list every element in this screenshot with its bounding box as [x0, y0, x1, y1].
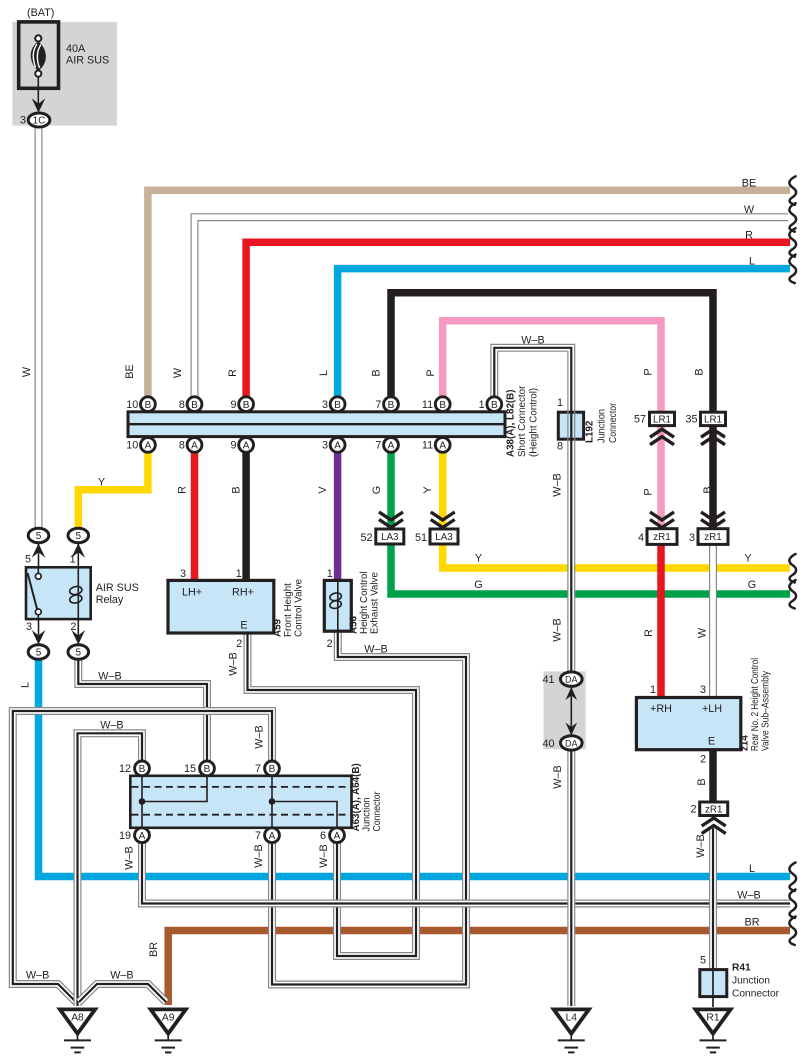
- svg-text:W–B: W–B: [124, 846, 136, 869]
- svg-text:4: 4: [638, 532, 644, 544]
- svg-text:B: B: [243, 400, 250, 411]
- svg-text:Exhaust Valve: Exhaust Valve: [370, 572, 381, 634]
- svg-text:Y: Y: [744, 553, 751, 565]
- svg-text:+LH: +LH: [702, 703, 722, 715]
- svg-text:A8: A8: [71, 1013, 84, 1024]
- svg-text:40A: 40A: [66, 43, 86, 55]
- svg-text:9: 9: [230, 399, 236, 411]
- svg-text:2: 2: [690, 804, 696, 816]
- svg-text:8: 8: [179, 399, 185, 411]
- svg-text:Control Valve: Control Valve: [294, 578, 305, 637]
- svg-text:7: 7: [255, 830, 261, 842]
- svg-text:R: R: [643, 629, 655, 637]
- svg-text:2: 2: [70, 621, 76, 633]
- svg-text:A: A: [388, 441, 395, 452]
- svg-text:zR1: zR1: [653, 532, 670, 543]
- svg-text:B: B: [388, 400, 395, 411]
- svg-text:AIR SUS: AIR SUS: [66, 55, 109, 67]
- svg-text:7: 7: [375, 440, 381, 452]
- svg-text:BE: BE: [742, 178, 756, 190]
- svg-text:R41: R41: [732, 963, 751, 974]
- svg-text:A: A: [334, 441, 341, 452]
- svg-text:5: 5: [36, 531, 42, 542]
- svg-text:A: A: [243, 441, 250, 452]
- svg-text:W–B: W–B: [98, 671, 121, 683]
- svg-text:B: B: [371, 369, 383, 376]
- svg-text:1: 1: [70, 554, 76, 566]
- svg-text:Junction: Junction: [732, 976, 770, 987]
- svg-text:11: 11: [422, 440, 433, 452]
- svg-text:W: W: [697, 627, 709, 638]
- svg-text:W–B: W–B: [552, 765, 564, 788]
- svg-text:1: 1: [650, 684, 656, 696]
- svg-text:7: 7: [255, 763, 261, 775]
- svg-text:z14: z14: [740, 735, 751, 751]
- svg-text:8: 8: [179, 440, 185, 452]
- svg-text:L: L: [749, 863, 755, 875]
- svg-text:Rear No. 2 Height Control: Rear No. 2 Height Control: [750, 658, 761, 751]
- svg-text:W–B: W–B: [552, 473, 564, 496]
- svg-text:B: B: [694, 368, 706, 375]
- svg-text:R1: R1: [706, 1013, 719, 1024]
- svg-text:E: E: [240, 620, 247, 632]
- svg-text:51: 51: [415, 532, 427, 544]
- svg-text:10: 10: [126, 440, 138, 452]
- svg-text:Relay: Relay: [96, 594, 124, 606]
- svg-text:A9: A9: [162, 1013, 175, 1024]
- svg-text:L192: L192: [585, 420, 596, 443]
- svg-text:W: W: [172, 367, 184, 378]
- svg-text:Y: Y: [98, 477, 105, 489]
- svg-text:B: B: [702, 486, 714, 493]
- svg-text:W–B: W–B: [364, 644, 387, 656]
- svg-text:RH+: RH+: [232, 587, 254, 599]
- svg-text:2: 2: [327, 638, 333, 650]
- svg-text:B: B: [230, 486, 242, 493]
- svg-text:B: B: [491, 400, 498, 411]
- svg-text:W–B: W–B: [253, 844, 265, 867]
- svg-text:L: L: [20, 682, 32, 688]
- svg-text:1: 1: [236, 568, 242, 580]
- svg-text:L: L: [318, 370, 330, 376]
- svg-text:W: W: [744, 204, 755, 216]
- svg-text:Connector: Connector: [372, 791, 383, 832]
- svg-text:W–B: W–B: [254, 725, 266, 748]
- svg-text:W–B: W–B: [110, 970, 133, 982]
- svg-text:BE: BE: [124, 364, 136, 378]
- svg-text:BR: BR: [148, 942, 160, 957]
- svg-text:57: 57: [634, 414, 646, 426]
- svg-text:AIR SUS: AIR SUS: [96, 582, 139, 594]
- svg-text:P: P: [425, 369, 437, 376]
- svg-text:40: 40: [542, 738, 554, 750]
- svg-text:Connector: Connector: [732, 989, 780, 1000]
- svg-text:9: 9: [230, 440, 236, 452]
- svg-text:52: 52: [360, 532, 372, 544]
- svg-text:2: 2: [236, 638, 242, 650]
- svg-text:W–B: W–B: [100, 720, 123, 732]
- svg-text:W–B: W–B: [318, 844, 330, 867]
- svg-text:41: 41: [542, 674, 554, 686]
- svg-text:A59: A59: [273, 618, 284, 637]
- svg-text:+RH: +RH: [650, 703, 672, 715]
- svg-text:3: 3: [322, 399, 328, 411]
- svg-text:3: 3: [700, 684, 706, 696]
- svg-text:A63(A), A64(B): A63(A), A64(B): [351, 763, 362, 831]
- svg-text:3: 3: [689, 532, 695, 544]
- svg-text:G: G: [474, 579, 482, 591]
- svg-text:Short Connector: Short Connector: [517, 385, 528, 457]
- svg-text:5: 5: [25, 554, 31, 566]
- svg-text:LH+: LH+: [182, 587, 202, 599]
- svg-text:Valve Sub–Assembly: Valve Sub–Assembly: [761, 671, 772, 751]
- svg-text:A: A: [439, 441, 446, 452]
- svg-text:A56: A56: [349, 615, 360, 634]
- svg-text:3: 3: [180, 568, 186, 580]
- svg-text:P: P: [643, 368, 655, 375]
- svg-text:Connector: Connector: [608, 402, 619, 443]
- svg-text:R: R: [227, 369, 239, 377]
- svg-text:LA3: LA3: [435, 532, 453, 543]
- svg-text:E: E: [708, 736, 715, 748]
- svg-text:W–B: W–B: [521, 335, 544, 347]
- svg-text:DA: DA: [565, 738, 578, 748]
- svg-text:R: R: [745, 230, 753, 242]
- svg-text:5: 5: [700, 955, 706, 967]
- svg-text:Y: Y: [475, 553, 482, 565]
- svg-text:B: B: [269, 764, 276, 775]
- svg-text:11: 11: [422, 399, 433, 411]
- svg-text:A: A: [145, 441, 152, 452]
- svg-text:35: 35: [685, 414, 697, 426]
- svg-text:3: 3: [20, 115, 26, 127]
- svg-text:W–B: W–B: [228, 652, 240, 675]
- svg-text:B: B: [139, 764, 146, 775]
- svg-text:12: 12: [119, 763, 131, 775]
- svg-text:1: 1: [327, 568, 333, 580]
- svg-text:W–B: W–B: [695, 834, 707, 857]
- svg-text:A: A: [191, 441, 198, 452]
- svg-text:B: B: [145, 400, 152, 411]
- svg-text:10: 10: [126, 399, 138, 411]
- svg-text:LR1: LR1: [653, 414, 671, 425]
- svg-text:V: V: [317, 486, 329, 494]
- svg-text:5: 5: [76, 648, 82, 659]
- svg-text:B: B: [696, 778, 708, 785]
- svg-text:zR1: zR1: [705, 804, 722, 815]
- svg-text:Junction: Junction: [362, 798, 373, 832]
- svg-text:A: A: [139, 831, 146, 842]
- svg-text:A38(A), L82(B): A38(A), L82(B): [506, 390, 517, 458]
- svg-text:A: A: [334, 831, 341, 842]
- svg-text:L: L: [749, 256, 755, 268]
- svg-text:1C: 1C: [33, 116, 46, 127]
- svg-text:Front Height: Front Height: [283, 583, 294, 637]
- svg-text:1: 1: [557, 397, 563, 409]
- svg-text:W–B: W–B: [26, 970, 49, 982]
- svg-text:R: R: [177, 486, 189, 494]
- svg-text:G: G: [748, 579, 756, 591]
- svg-text:B: B: [334, 400, 341, 411]
- svg-text:(BAT): (BAT): [27, 7, 54, 19]
- svg-text:(Height Control): (Height Control): [529, 388, 540, 457]
- svg-text:W–B: W–B: [737, 890, 760, 902]
- svg-text:B: B: [439, 400, 446, 411]
- svg-text:L4: L4: [566, 1013, 578, 1024]
- svg-text:LR1: LR1: [704, 414, 722, 425]
- svg-text:6: 6: [320, 830, 326, 842]
- svg-text:Junction: Junction: [597, 409, 608, 443]
- svg-text:3: 3: [26, 621, 32, 633]
- svg-text:8: 8: [557, 441, 563, 453]
- svg-text:W–B: W–B: [552, 618, 564, 641]
- svg-text:Y: Y: [422, 486, 434, 493]
- svg-text:G: G: [371, 486, 383, 494]
- svg-text:B: B: [204, 764, 211, 775]
- svg-text:DA: DA: [565, 675, 578, 685]
- svg-text:7: 7: [375, 399, 381, 411]
- svg-text:BR: BR: [745, 917, 760, 929]
- svg-text:A: A: [269, 831, 276, 842]
- svg-text:2: 2: [700, 754, 706, 766]
- svg-text:W: W: [21, 366, 33, 377]
- svg-text:5: 5: [36, 648, 42, 659]
- svg-text:P: P: [643, 488, 655, 495]
- svg-text:B: B: [191, 400, 198, 411]
- svg-text:Height Control: Height Control: [359, 571, 370, 634]
- svg-text:3: 3: [322, 440, 328, 452]
- svg-text:19: 19: [119, 830, 131, 842]
- svg-text:LA3: LA3: [381, 532, 399, 543]
- svg-text:1: 1: [479, 399, 485, 411]
- svg-text:15: 15: [184, 763, 196, 775]
- svg-text:zR1: zR1: [704, 532, 721, 543]
- svg-text:5: 5: [76, 531, 82, 542]
